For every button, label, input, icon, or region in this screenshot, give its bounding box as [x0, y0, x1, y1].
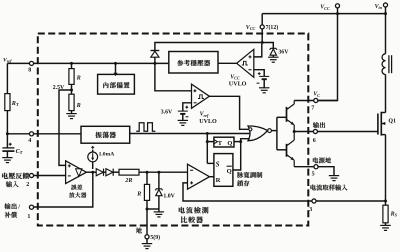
wire pin7 stem down: [261, 29, 263, 43]
wire bias arrow: [115, 63, 117, 72]
svg-text:R: R: [216, 177, 221, 184]
wire zener to bottom: [158, 196, 160, 209]
node network-R: [146, 171, 149, 174]
diode D1: [96, 169, 103, 176]
svg-text:T: T: [218, 140, 223, 147]
ground RS: [380, 225, 390, 230]
error amp minus: [68, 175, 71, 177]
wire RT to node: [6, 111, 8, 134]
wire 2.5V to erramp +: [59, 90, 72, 165]
zener 36V branch: [262, 43, 273, 49]
node network-gnd: [146, 208, 149, 211]
zener 1.0V: [155, 189, 162, 191]
IC package dashed boundary: [38, 34, 309, 226]
wire output to pin6: [294, 131, 313, 133]
pin 1 terminal: [29, 205, 33, 209]
pin 2 terminal: [29, 173, 33, 177]
wire Vref rail: [34, 62, 169, 64]
resistor R network: [144, 184, 149, 200]
latch PWM: [214, 154, 233, 187]
wire Vref-rail left: [7, 62, 29, 64]
label ground chinese: [136, 228, 142, 234]
Vcc UVLO minus: [249, 69, 252, 71]
wire regulator to VccUVLO out: [218, 62, 237, 64]
wire tap down: [206, 134, 208, 164]
transistor Q-top: [286, 107, 288, 122]
wire zener to gnd: [272, 55, 274, 57]
svg-text:Vref: Vref: [3, 57, 12, 63]
svg-text:2: 2: [26, 182, 29, 188]
transistor Q-bottom: [286, 144, 288, 157]
diode D2: [106, 169, 113, 176]
wire pin5 ground ext: [318, 167, 334, 176]
block internal-bias: [98, 74, 135, 94]
pin 4 terminal: [29, 132, 33, 136]
wire VrefUVLO out: [209, 96, 248, 129]
wire Vcc branch down: [318, 14, 338, 101]
node Vcc-terminal junction: [336, 12, 339, 15]
label error-amplifier: [71, 185, 76, 190]
svg-text:3: 3: [309, 207, 312, 213]
ground pin 5(9): [142, 244, 152, 249]
node tap-T: [206, 140, 209, 143]
wire CT to ground: [6, 151, 8, 158]
wire RS to gnd: [385, 223, 387, 226]
wire D1-D2: [104, 171, 106, 173]
transistor Q1 MOSFET: [377, 114, 379, 135]
wire R to 2.5V node: [71, 84, 73, 94]
wire erramp out: [86, 171, 96, 173]
wire tap to S input: [207, 162, 214, 164]
wire comparator out to R: [210, 176, 214, 178]
wire Vc external: [318, 100, 338, 102]
ground divider: [66, 114, 76, 119]
wire VccUVLO- to battery: [254, 70, 264, 77]
Vref UVLO hysteresis mark: [198, 95, 204, 99]
pin Vc terminal: [314, 98, 318, 102]
pin 6 terminal: [313, 129, 317, 133]
pin 3 terminal: [312, 199, 316, 203]
Vcc UVLO plus: [249, 55, 252, 58]
wire emitter to pin5: [294, 166, 314, 168]
svg-text:VC: VC: [313, 92, 320, 98]
flip-flop T: [214, 137, 234, 147]
wire VccUVLO+ to Vcc: [254, 44, 262, 57]
terminal Vcc: [335, 4, 339, 8]
wire R net bottom: [146, 200, 148, 209]
svg-text:Vin: Vin: [375, 4, 383, 10]
ground Vcc battery: [259, 88, 269, 93]
label voltage-feedback-input: [2, 173, 8, 179]
op-amp Vcc-UVLO: [237, 49, 254, 77]
label current-sense 2: [181, 217, 187, 223]
wire collector to Vc: [294, 100, 314, 102]
svg-text:5: 5: [312, 172, 315, 178]
svg-text:R: R: [76, 75, 81, 82]
wire top base: [277, 116, 287, 118]
wire bottom base: [277, 149, 287, 151]
svg-text:7(12): 7(12): [266, 24, 279, 31]
wire to pin 5(9): [146, 209, 148, 235]
wire coil to drain: [385, 75, 387, 113]
wire network bottom: [147, 208, 159, 210]
node rail-divider: [70, 62, 73, 65]
svg-text:4: 4: [28, 138, 31, 144]
ground 3.6V battery: [178, 120, 188, 125]
label current-sense 1: [179, 207, 185, 213]
Vref UVLO minus: [194, 102, 197, 104]
node network-zener: [157, 171, 160, 174]
node Vin junction: [384, 12, 387, 15]
svg-text:1.0mA: 1.0mA: [99, 152, 115, 158]
resistor R lower: [69, 94, 74, 110]
node Vcc junction: [261, 41, 264, 44]
svg-text:UVLO: UVLO: [229, 81, 247, 87]
svg-text:2R: 2R: [124, 178, 132, 184]
label PWM-latch: [237, 172, 243, 178]
wire node to pin4: [7, 133, 29, 135]
svg-text:6: 6: [313, 138, 316, 144]
block reference-regulator: [169, 52, 218, 74]
wire COMP feedback: [34, 172, 93, 207]
wire oscillator output: [130, 133, 250, 135]
wire R net down: [146, 172, 148, 184]
pin 8 terminal: [29, 61, 33, 65]
svg-text:VCC: VCC: [230, 74, 240, 80]
resistor R upper: [69, 69, 74, 85]
svg-text:RS: RS: [390, 211, 398, 217]
wire battery to gnd: [263, 79, 265, 88]
resistor RS: [383, 205, 388, 223]
svg-text:Q1: Q1: [388, 118, 396, 124]
inductor primary: [382, 54, 385, 75]
svg-text:/: /: [17, 203, 20, 210]
node 2.5V: [70, 89, 73, 92]
ground 36V zener: [268, 57, 278, 62]
battery Vcc-threshold: [259, 75, 269, 77]
svg-text:3.6V: 3.6V: [161, 109, 173, 115]
wire zener net down: [158, 172, 160, 189]
svg-text:VCC: VCC: [320, 5, 330, 11]
node osc-latch tap: [206, 132, 209, 135]
wire pin7 stem up: [261, 14, 263, 25]
op-amp Vref-UVLO: [192, 84, 210, 108]
wire 3.6V battery gnd: [182, 114, 184, 121]
op-amp current-sense-comparator: [188, 164, 210, 189]
wire node down to CT: [6, 134, 8, 148]
wire base rail: [276, 117, 278, 150]
wire pin2 to erramp: [34, 175, 66, 177]
wire R lower to gnd: [71, 111, 73, 114]
resistor 2R: [119, 169, 139, 175]
svg-text:R: R: [76, 102, 81, 109]
label current-sample-input: [310, 184, 316, 190]
battery 3.6V: [178, 110, 188, 112]
svg-text:Q: Q: [227, 168, 232, 175]
svg-text:R: R: [136, 192, 141, 198]
wire pin6 to gate: [317, 131, 378, 133]
svg-text:8: 8: [28, 67, 31, 73]
wire pin5(9) to gnd: [146, 239, 148, 244]
comparator plus: [190, 181, 193, 184]
svg-text:7: 7: [311, 106, 314, 112]
wire source to node: [92, 162, 94, 169]
zener 36V: [270, 48, 277, 50]
wire NOR out: [271, 130, 277, 132]
node TQ-NOR: [239, 140, 242, 143]
terminal Vin: [383, 3, 387, 7]
wire to net ground: [158, 209, 160, 212]
node source-Rs junction: [384, 200, 387, 203]
Vref UVLO plus: [193, 89, 196, 92]
pin 7(12) terminal: [260, 25, 264, 29]
wire pin3 external: [316, 200, 386, 202]
wire rail to VrefUVLO+: [155, 63, 192, 90]
arrowhead into bias box: [114, 73, 118, 77]
wire tap to T input: [207, 141, 214, 143]
svg-text:UVLO: UVLO: [199, 119, 217, 125]
svg-text:1: 1: [27, 214, 30, 220]
wire 2R to comparator: [139, 171, 188, 173]
NOR input bubble: [249, 128, 252, 131]
wire source down: [385, 135, 387, 201]
node rail-bias: [114, 62, 117, 65]
wire latch Qbar to NOR: [233, 139, 250, 170]
svg-text:36V: 36V: [278, 50, 289, 56]
diode Vref-Vcc: [151, 51, 159, 57]
label output/compensation: [4, 203, 10, 209]
op-amp error-amplifier: [66, 161, 87, 184]
svg-text:Q: Q: [227, 140, 232, 147]
svg-text:S: S: [216, 162, 220, 169]
wire comparator+ to pin3: [183, 183, 312, 201]
ground network: [154, 212, 164, 217]
current source 1.0mA: [88, 152, 98, 162]
wire diode bottom: [154, 57, 156, 63]
block oscillator: [81, 126, 130, 143]
inductor core bars: [388, 55, 390, 73]
ground CT: [2, 158, 12, 163]
ground pin5: [329, 176, 339, 181]
resistor RT: [5, 94, 10, 111]
wire Vin rail to coil: [385, 14, 387, 54]
node RT/CT junction: [6, 132, 9, 135]
wire pin4 to oscillator: [34, 133, 82, 135]
Vcc UVLO hysteresis mark: [242, 61, 248, 65]
label output pin6: [313, 122, 319, 128]
node COMP: [91, 171, 94, 174]
wire top rail: [262, 13, 385, 15]
svg-text:Vref: Vref: [200, 112, 209, 118]
comparator minus: [190, 169, 193, 171]
svg-text:VCC: VCC: [246, 25, 256, 31]
wire left rail down: [6, 63, 8, 93]
node rail-diode: [153, 62, 156, 65]
wire divider top: [71, 63, 73, 68]
wire D2-2R: [113, 171, 119, 173]
node output junction: [293, 130, 296, 133]
error amp inner mark: [76, 169, 82, 177]
wire diode top to Vcc rail: [155, 43, 262, 51]
wire VrefUVLO- to battery: [183, 103, 192, 111]
label power-ground: [313, 157, 318, 163]
svg-text:5(9): 5(9): [150, 234, 160, 241]
pin 5 terminal: [314, 165, 318, 169]
wire Vcc terminal stem: [337, 8, 339, 14]
wire Vin terminal stem: [385, 7, 387, 14]
svg-text:1.0V: 1.0V: [163, 194, 175, 200]
wire TQ out: [234, 141, 241, 143]
pin 5(9) terminal: [145, 235, 149, 239]
error amp plus: [68, 164, 71, 167]
clock waveform glyph: [136, 123, 155, 131]
capacitor CT: [9, 143, 12, 146]
gate NOR: [248, 126, 268, 141]
